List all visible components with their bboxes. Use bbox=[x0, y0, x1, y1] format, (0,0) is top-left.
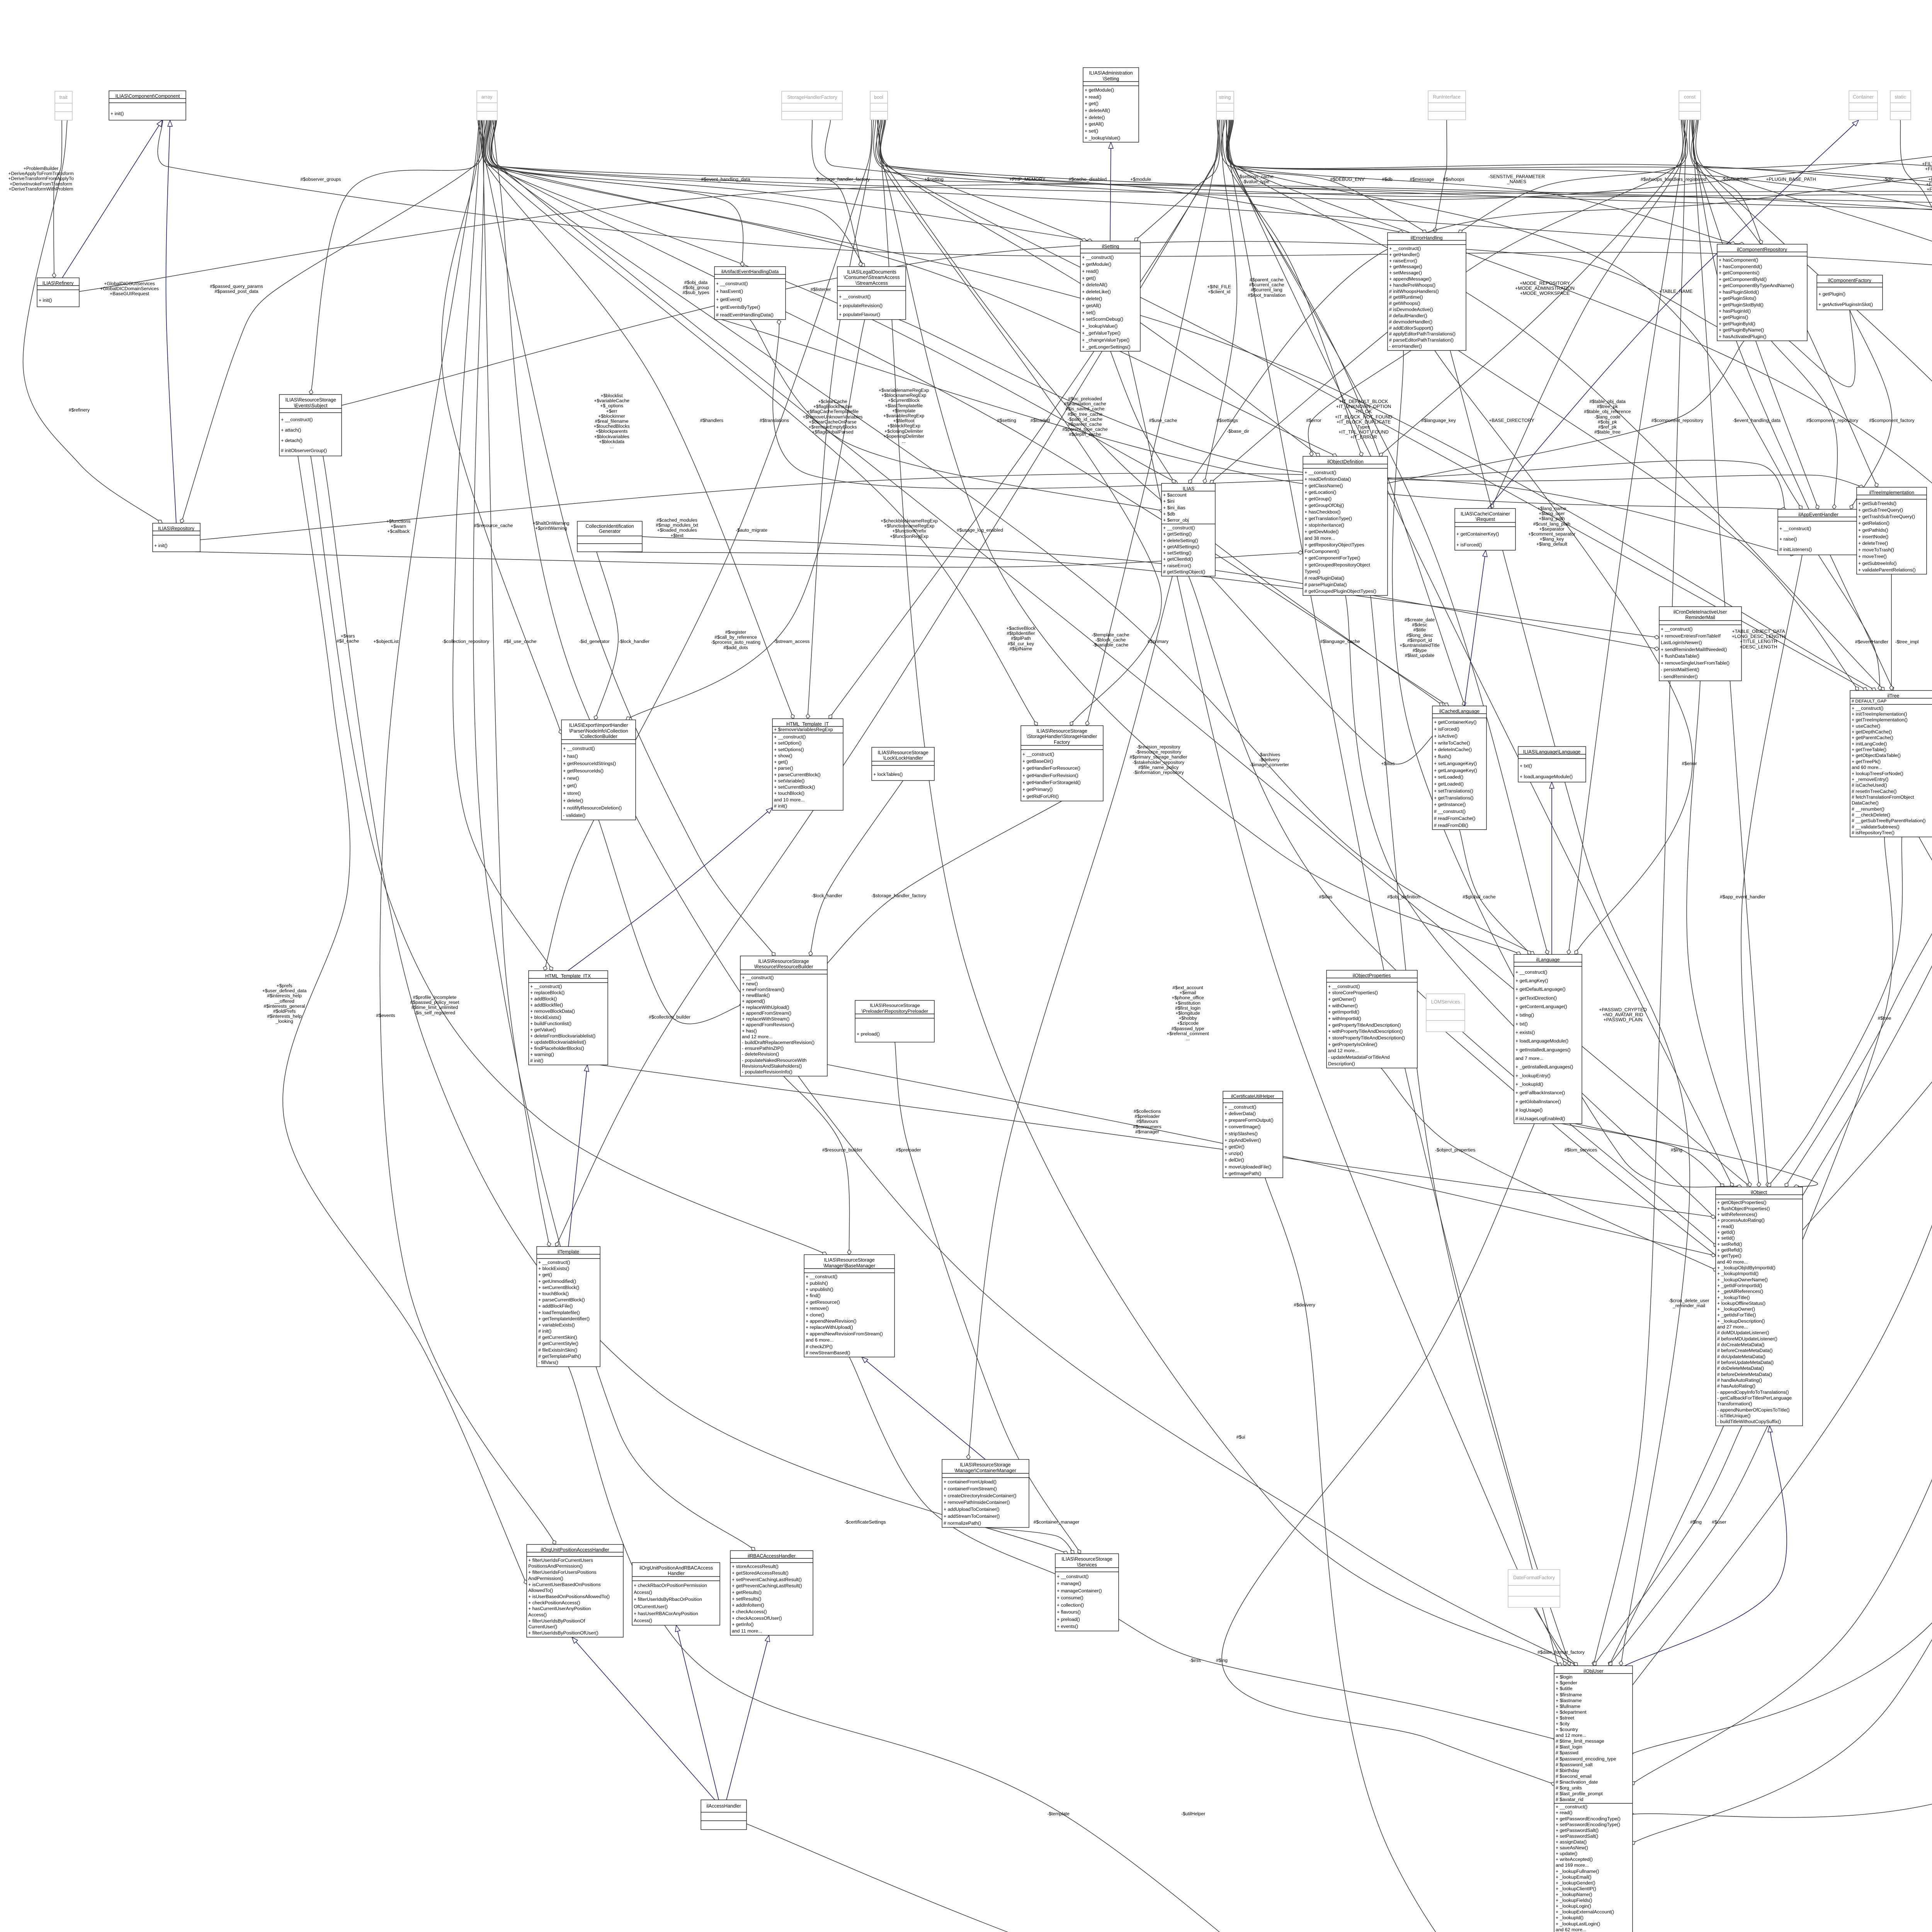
svg-text:ilTreeImplementation: ilTreeImplementation bbox=[1869, 490, 1914, 495]
svg-text:#$use_cache: #$use_cache bbox=[1149, 418, 1177, 423]
svg-text:ILIAS\ResourceStorage: ILIAS\ResourceStorage bbox=[960, 1462, 1010, 1468]
svg-text:# doUpdateMetaData(): # doUpdateMetaData() bbox=[1717, 1354, 1765, 1359]
svg-text:# $time_limit_message: # $time_limit_message bbox=[1556, 1738, 1604, 1744]
svg-text:StorageHandlerFactory: StorageHandlerFactory bbox=[787, 95, 837, 100]
svg-text:+ deleteTree(): + deleteTree() bbox=[1858, 541, 1888, 546]
svg-text:+ withImportId(): + withImportId() bbox=[1328, 1016, 1361, 1021]
svg-text:+ init(): + init() bbox=[111, 111, 124, 116]
svg-text:+ hasComponent(): + hasComponent() bbox=[1719, 257, 1758, 263]
svg-text:RunInterface: RunInterface bbox=[1433, 94, 1461, 100]
svg-text:+ storePropertyTitleAndDescrip: + storePropertyTitleAndDescription() bbox=[1328, 1035, 1405, 1041]
svg-text:+IT_DEFAULT_BLOCK: +IT_DEFAULT_BLOCK bbox=[1339, 399, 1388, 404]
svg-text:#$desc: #$desc bbox=[1412, 622, 1427, 628]
svg-text:+ getResourceIdStrings(): + getResourceIdStrings() bbox=[563, 761, 616, 766]
svg-text:+ getGroup(): + getGroup() bbox=[1304, 496, 1332, 502]
svg-text:#$translation_cache: #$translation_cache bbox=[1064, 401, 1106, 406]
svg-text:+$user_defined_data: +$user_defined_data bbox=[262, 988, 307, 993]
svg-text:#$obj_definition: #$obj_definition bbox=[1387, 894, 1420, 900]
svg-text:+$closingDelimiter: +$closingDelimiter bbox=[884, 429, 923, 434]
svg-text:+ setCurrentBlock(): + setCurrentBlock() bbox=[538, 1285, 579, 1290]
svg-text:+$blockinner: +$blockinner bbox=[598, 413, 625, 419]
svg-text:-$path_id_cache: -$path_id_cache bbox=[1068, 417, 1102, 422]
svg-text:+ addBlock(): + addBlock() bbox=[530, 996, 557, 1002]
svg-text:+$touchedBlocks: +$touchedBlocks bbox=[594, 423, 629, 429]
svg-text:and 7 more...: and 7 more... bbox=[1515, 1056, 1543, 1061]
svg-text:+ hasComponentId(): + hasComponentId() bbox=[1719, 264, 1762, 269]
svg-text:#$events: #$events bbox=[376, 1013, 395, 1018]
svg-text:\StorageHandler\StorageHandler: \StorageHandler\StorageHandler bbox=[1027, 734, 1097, 739]
svg-text:+ getTreePk(): + getTreePk() bbox=[1852, 759, 1881, 764]
svg-text:+MODE_REPOSITORY: +MODE_REPOSITORY bbox=[1520, 281, 1570, 286]
svg-text:+ zipAndDeliver(): + zipAndDeliver() bbox=[1225, 1138, 1261, 1143]
svg-text:#$db: #$db bbox=[1382, 177, 1392, 182]
svg-text:# $passwd: # $passwd bbox=[1556, 1750, 1578, 1755]
svg-text:+ convertImage(): + convertImage() bbox=[1225, 1124, 1260, 1129]
svg-text:+ filterUserIdsByPositionOf: + filterUserIdsByPositionOf bbox=[528, 1618, 585, 1624]
svg-text:+ readDefinitionData(): + readDefinitionData() bbox=[1304, 476, 1351, 482]
svg-text:+ isForced(): + isForced() bbox=[1456, 542, 1482, 548]
svg-text:# readFromDB(): # readFromDB() bbox=[1434, 823, 1468, 828]
svg-text:Types: Types bbox=[1357, 424, 1370, 430]
svg-text:+ getDefaultLanguage(): + getDefaultLanguage() bbox=[1515, 986, 1566, 992]
svg-text:+ getComponentByTypeAndName(): + getComponentByTypeAndName() bbox=[1719, 283, 1794, 288]
svg-text:#$root_translation: #$root_translation bbox=[1248, 293, 1286, 298]
svg-text:+FILTER_TEMPLATES: +FILTER_TEMPLATES bbox=[1926, 182, 1932, 187]
svg-text:+ flavours(): + flavours() bbox=[1057, 1609, 1081, 1615]
svg-text:Generator: Generator bbox=[599, 529, 621, 534]
svg-text:Access(): Access() bbox=[634, 1590, 652, 1595]
svg-text:DataCache(): DataCache() bbox=[1852, 800, 1879, 806]
svg-text:# initObserverGroup(): # initObserverGroup() bbox=[281, 448, 327, 453]
svg-text:+ appendMessage(): + appendMessage() bbox=[1389, 276, 1432, 282]
svg-text:# initWhoopsHandlers(): # initWhoopsHandlers() bbox=[1389, 289, 1439, 294]
svg-text:+ newBlank(): + newBlank() bbox=[742, 993, 770, 998]
svg-text:ilOrgUnitPositionAndRBACAccess: ilOrgUnitPositionAndRBACAccess bbox=[639, 1565, 713, 1571]
svg-text:+ writeAccepted(): + writeAccepted() bbox=[1556, 1857, 1593, 1862]
svg-text:+ newFromStream(): + newFromStream() bbox=[742, 987, 784, 992]
svg-text:ilCronDeleteInactiveUser: ilCronDeleteInactiveUser bbox=[1673, 609, 1727, 615]
svg-text:#$depth_cache: #$depth_cache bbox=[1069, 432, 1101, 437]
svg-text:#$error: #$error bbox=[1682, 761, 1697, 766]
svg-text:+ lockTables(): + lockTables() bbox=[873, 772, 903, 777]
svg-text:#$lom_services: #$lom_services bbox=[1565, 1147, 1597, 1153]
svg-text:# beforeUpdateMetaData(): # beforeUpdateMetaData() bbox=[1717, 1360, 1774, 1365]
svg-text:+ __construct(): + __construct() bbox=[1328, 984, 1360, 989]
svg-text:+ _getLongerSettings(): + _getLongerSettings() bbox=[1082, 344, 1130, 350]
svg-text:+ getType(): + getType() bbox=[1717, 1253, 1742, 1259]
svg-text:...: ... bbox=[1186, 1036, 1190, 1041]
svg-text:ilObject: ilObject bbox=[1751, 1190, 1767, 1195]
svg-text:#$time_limit_unlimited: #$time_limit_unlimited bbox=[412, 1005, 458, 1010]
svg-text:#$lng: #$lng bbox=[1216, 1658, 1228, 1663]
svg-text:+ setLoaded(): + setLoaded() bbox=[1434, 774, 1463, 780]
svg-text:HTML_Template_IT: HTML_Template_IT bbox=[786, 721, 829, 727]
svg-text:+ getRidForURI(): + getRidForURI() bbox=[1022, 794, 1059, 799]
svg-text:-$process_auto_reating: -$process_auto_reating bbox=[711, 639, 760, 645]
svg-text:- getCallbackForTitlesPerLangu: - getCallbackForTitlesPerLanguage bbox=[1717, 1395, 1792, 1401]
svg-text:+ read(): + read() bbox=[1082, 269, 1099, 274]
svg-text:+ writeToCache(): + writeToCache() bbox=[1434, 740, 1470, 746]
svg-text:+$loaded_modules: +$loaded_modules bbox=[657, 527, 697, 533]
svg-text:# __construct(): # __construct() bbox=[1434, 809, 1466, 814]
svg-text:#$manager: #$manager bbox=[1135, 1129, 1159, 1134]
svg-text:+ lookupTreesForNode(): + lookupTreesForNode() bbox=[1852, 771, 1903, 776]
svg-text:+ getPasswordEncodingType(): + getPasswordEncodingType() bbox=[1556, 1816, 1621, 1821]
svg-text:+$removeUnknownVariables: +$removeUnknownVariables bbox=[803, 414, 862, 420]
svg-text:trait: trait bbox=[60, 95, 68, 100]
svg-text:+ $ini_ilias: + $ini_ilias bbox=[1163, 505, 1185, 510]
svg-text:+$checkblocknameRegExp: +$checkblocknameRegExp bbox=[881, 518, 938, 524]
svg-text:+ _lookupLogin(): + _lookupLogin() bbox=[1556, 1903, 1591, 1909]
svg-text:#$settings: #$settings bbox=[1216, 418, 1238, 423]
svg-text:-$id_generator: -$id_generator bbox=[579, 639, 609, 644]
svg-text:#$consumers: #$consumers bbox=[1133, 1124, 1161, 1129]
svg-text:+DESC_LENGTH: +DESC_LENGTH bbox=[1740, 644, 1777, 650]
svg-text:+ _lookupDescription(): + _lookupDescription() bbox=[1717, 1318, 1765, 1324]
svg-text:PositionsAndPermission(): PositionsAndPermission() bbox=[528, 1563, 583, 1569]
svg-text:# __renumber(): # __renumber() bbox=[1852, 806, 1884, 812]
svg-text:+FILTER_INTERNAL: +FILTER_INTERNAL bbox=[1928, 177, 1932, 182]
svg-text:+ new(): + new() bbox=[742, 981, 758, 986]
svg-text:\Manager\ContainerManager: \Manager\ContainerManager bbox=[954, 1468, 1016, 1473]
svg-text:#$user: #$user bbox=[1712, 1519, 1726, 1525]
svg-text:+ getMessage(): + getMessage() bbox=[1389, 264, 1422, 269]
svg-text:#$component_repository: #$component_repository bbox=[1806, 418, 1859, 423]
svg-text:+ loadTemplatefile(): + loadTemplatefile() bbox=[538, 1310, 580, 1315]
svg-text:+ store(): + store() bbox=[563, 791, 581, 796]
svg-text:# $birthday: # $birthday bbox=[1556, 1768, 1580, 1773]
svg-text:# init(): # init() bbox=[774, 803, 787, 809]
svg-text:DateFormatFactory: DateFormatFactory bbox=[1513, 1575, 1555, 1580]
svg-text:+ deleteLike(): + deleteLike() bbox=[1082, 289, 1111, 294]
svg-text:+ hasUserRBACorAnyPosition: + hasUserRBACorAnyPosition bbox=[634, 1611, 698, 1616]
svg-text:+ getUnmodified(): + getUnmodified() bbox=[538, 1279, 576, 1284]
svg-text:+DeriveTransformWithProblem: +DeriveTransformWithProblem bbox=[9, 186, 73, 192]
svg-text:-$base_dir: -$base_dir bbox=[1227, 429, 1249, 434]
svg-text:- buildTitleWithoutCopySuffix(: - buildTitleWithoutCopySuffix() bbox=[1717, 1419, 1781, 1424]
svg-text:+$haltOnWarning: +$haltOnWarning bbox=[533, 520, 570, 526]
svg-text:Container: Container bbox=[1853, 94, 1874, 100]
svg-text:+ProblemBuilder: +ProblemBuilder bbox=[24, 166, 58, 171]
svg-text:#$tplName: #$tplName bbox=[1010, 646, 1032, 651]
svg-text:+ $utitle: + $utitle bbox=[1556, 1686, 1573, 1691]
svg-text:+ raiseError(): + raiseError() bbox=[1389, 258, 1417, 264]
svg-text:+ getSubTreeIds(): + getSubTreeIds() bbox=[1858, 501, 1896, 506]
svg-text:+ has(): + has() bbox=[563, 753, 578, 759]
svg-text:-$template: -$template bbox=[1047, 1811, 1070, 1816]
svg-text:+ getPasswordSalt(): + getPasswordSalt() bbox=[1556, 1828, 1599, 1833]
svg-text:+ isActive(): + isActive() bbox=[1434, 733, 1458, 739]
svg-text:+ _lookupId(): + _lookupId() bbox=[1515, 1082, 1543, 1087]
svg-text:+ __construct(): + __construct() bbox=[742, 975, 774, 980]
svg-text:+IT_UNKNOWN_OPTION: +IT_UNKNOWN_OPTION bbox=[1336, 404, 1391, 409]
svg-text:+ clone(): + clone() bbox=[806, 1312, 824, 1318]
svg-text:+ has(): + has() bbox=[742, 1028, 757, 1034]
svg-text:- buildDraftReplacementRevisio: - buildDraftReplacementRevision() bbox=[742, 1040, 815, 1045]
svg-text:+ _lookupId(): + _lookupId() bbox=[1556, 1915, 1583, 1920]
svg-text:+ getGroupOfObj(): + getGroupOfObj() bbox=[1304, 503, 1344, 508]
svg-text:+ getDepthCache(): + getDepthCache() bbox=[1852, 729, 1892, 735]
svg-text:ILIAS\ResourceStorage: ILIAS\ResourceStorage bbox=[878, 750, 928, 755]
svg-text:+ txt(): + txt() bbox=[1515, 1021, 1528, 1027]
svg-text:+ flush(): + flush() bbox=[1434, 754, 1451, 759]
svg-text:#$passwd_policy_reset: #$passwd_policy_reset bbox=[410, 1000, 459, 1005]
svg-text:+ read(): + read() bbox=[1085, 94, 1101, 100]
svg-text:- fillVars(): - fillVars() bbox=[538, 1360, 558, 1365]
svg-text:+ getParentCache(): + getParentCache() bbox=[1852, 735, 1893, 740]
svg-text:#$resource_cache: #$resource_cache bbox=[474, 523, 513, 528]
svg-text:# parsePluginData(): # parsePluginData() bbox=[1304, 582, 1347, 587]
svg-text:+ getModule(): + getModule() bbox=[1082, 262, 1111, 267]
svg-text:+ $department: + $department bbox=[1556, 1709, 1587, 1715]
svg-text:+ publish(): + publish() bbox=[806, 1281, 828, 1286]
svg-text:+ get(): + get() bbox=[1085, 101, 1099, 106]
svg-text:+ hasPluginSlotId(): + hasPluginSlotId() bbox=[1719, 289, 1759, 295]
svg-text:+ assignData(): + assignData() bbox=[1556, 1839, 1587, 1845]
svg-text:+ setVariable(): + setVariable() bbox=[774, 778, 804, 784]
svg-text:#$table_obj_reference: #$table_obj_reference bbox=[1584, 409, 1631, 414]
svg-text:-$certificateSettings: -$certificateSettings bbox=[844, 1519, 886, 1525]
svg-text:+ hasCheckbox(): + hasCheckbox() bbox=[1304, 509, 1340, 515]
svg-text:+$hobby: +$hobby bbox=[1179, 1015, 1197, 1021]
svg-text:#$tree: #$tree bbox=[1878, 1015, 1891, 1021]
svg-text:-$settings_cache: -$settings_cache bbox=[1238, 174, 1274, 179]
svg-text:+ getAll(): + getAll() bbox=[1085, 121, 1104, 127]
svg-text:-$lock_handler: -$lock_handler bbox=[811, 893, 842, 898]
svg-text:+ blockExists(): + blockExists() bbox=[538, 1266, 569, 1271]
svg-text:# fileExistsInSkin(): # fileExistsInSkin() bbox=[538, 1347, 577, 1353]
svg-text:#$interests_help: #$interests_help bbox=[267, 993, 302, 998]
svg-text:# init(): # init() bbox=[530, 1058, 543, 1063]
svg-text:#$ext_account: #$ext_account bbox=[1172, 985, 1203, 990]
svg-text:+ setOptions(): + setOptions() bbox=[774, 747, 804, 752]
svg-text:+ _getValueType(): + _getValueType() bbox=[1082, 330, 1121, 336]
svg-text:+ manage(): + manage() bbox=[1057, 1581, 1081, 1586]
svg-text:+ _lookupLastLogin(): + _lookupLastLogin() bbox=[1556, 1921, 1600, 1927]
svg-text:+ getPluginByName(): + getPluginByName() bbox=[1719, 327, 1764, 333]
svg-text:#$parent_type_cache: #$parent_type_cache bbox=[1062, 427, 1107, 432]
svg-text:#$passed_post_data: #$passed_post_data bbox=[214, 289, 258, 294]
svg-text:+$openingDelimiter: +$openingDelimiter bbox=[883, 434, 924, 439]
svg-text:+ read(): + read() bbox=[1556, 1810, 1572, 1815]
svg-text:# beforeCreateMetaData(): # beforeCreateMetaData() bbox=[1717, 1348, 1773, 1353]
svg-text:\Parser\NodeInfo\Collection: \Parser\NodeInfo\Collection bbox=[569, 728, 628, 734]
svg-text:ilRBACAccessHandler: ilRBACAccessHandler bbox=[748, 1553, 796, 1559]
svg-text:+ getResults(): + getResults() bbox=[732, 1590, 762, 1595]
svg-text:#$add_dots: #$add_dots bbox=[723, 645, 748, 650]
svg-text:+ getTrashSubTreeQuery(): + getTrashSubTreeQuery() bbox=[1858, 514, 1915, 519]
svg-text:+ notififyResourceDeletion(): + notififyResourceDeletion() bbox=[563, 805, 622, 811]
svg-text:#$in_tree_cache: #$in_tree_cache bbox=[1068, 412, 1102, 417]
svg-text:#$collection_builder: #$collection_builder bbox=[649, 1014, 690, 1020]
svg-text:#$passwd_type: #$passwd_type bbox=[1172, 1026, 1204, 1031]
svg-text:-SENSTIVE_PARAMETER: -SENSTIVE_PARAMETER bbox=[1488, 174, 1545, 179]
svg-text:# __validateSubtrees(): # __validateSubtrees() bbox=[1852, 824, 1900, 830]
svg-text:+ txtlng(): + txtlng() bbox=[1515, 1012, 1534, 1018]
svg-text:+ append(): + append() bbox=[742, 998, 765, 1004]
svg-text:+ saveAsNew(): + saveAsNew() bbox=[1556, 1845, 1588, 1850]
svg-text:+$lastTemplatefile: +$lastTemplatefile bbox=[885, 403, 923, 408]
svg-text:- persistMailSent(): - persistMailSent() bbox=[1661, 667, 1699, 672]
svg-text:# initListeners(): # initListeners() bbox=[1779, 547, 1812, 552]
svg-text:+ getAllSettings(): + getAllSettings() bbox=[1163, 544, 1199, 549]
svg-text:Access(): Access() bbox=[528, 1612, 547, 1617]
svg-text:+$blocknameRegExp: +$blocknameRegExp bbox=[881, 393, 926, 398]
svg-text:ilTemplate: ilTemplate bbox=[558, 1249, 579, 1255]
svg-text:+ get(): + get() bbox=[538, 1272, 552, 1277]
svg-text:#$current_cache: #$current_cache bbox=[1249, 282, 1284, 287]
svg-text:static: static bbox=[1895, 94, 1906, 100]
svg-text:+ getSetting(): + getSetting() bbox=[1163, 531, 1192, 537]
svg-text:+ loadLanguageModule(): + loadLanguageModule() bbox=[1520, 774, 1573, 779]
svg-text:+$flagBlocktrouble: +$flagBlocktrouble bbox=[813, 404, 852, 409]
svg-text:+$institution: +$institution bbox=[1175, 1000, 1200, 1006]
svg-text:_looking: _looking bbox=[275, 1019, 293, 1024]
svg-text:#$title: #$title bbox=[1413, 627, 1426, 633]
svg-text:+ $street: + $street bbox=[1556, 1715, 1575, 1721]
svg-text:\Services: \Services bbox=[1077, 1562, 1097, 1568]
svg-text:# devmodeHandler(): # devmodeHandler() bbox=[1389, 319, 1432, 325]
svg-text:+ getLocation(): + getLocation() bbox=[1304, 490, 1336, 495]
svg-text:#$il_use_cache: #$il_use_cache bbox=[504, 639, 537, 644]
svg-text:+$clearCache: +$clearCache bbox=[818, 399, 847, 404]
svg-text:#$component_factory: #$component_factory bbox=[1869, 418, 1915, 423]
svg-text:# $avatar_rid: # $avatar_rid bbox=[1556, 1797, 1583, 1802]
svg-text:string: string bbox=[1219, 95, 1231, 100]
svg-text:+ setLanguageKey(): + setLanguageKey() bbox=[1434, 761, 1477, 766]
svg-text:#$last_update: #$last_update bbox=[1405, 653, 1435, 658]
svg-text:+ getLanguageKey(): + getLanguageKey() bbox=[1434, 768, 1477, 773]
svg-text:+ setSetting(): + setSetting() bbox=[1163, 550, 1191, 556]
svg-text:# doDeleteMetaData(): # doDeleteMetaData() bbox=[1717, 1366, 1764, 1371]
svg-text:#$import_id: #$import_id bbox=[1407, 638, 1432, 643]
svg-text:+ _lookupExternalAccount(): + _lookupExternalAccount() bbox=[1556, 1909, 1614, 1915]
svg-text:+ filterUserIdsByRbacOrPositio: + filterUserIdsByRbacOrPosition bbox=[634, 1597, 702, 1602]
svg-text:#$listener: #$listener bbox=[811, 287, 831, 292]
svg-text:+ getSubtreeInfo(): + getSubtreeInfo() bbox=[1858, 561, 1896, 566]
svg-text:+ _lookupImportId(): + _lookupImportId() bbox=[1717, 1271, 1759, 1276]
svg-text:+ __construct(): + __construct() bbox=[538, 1260, 570, 1265]
svg-text:+$functionRegExp: +$functionRegExp bbox=[890, 534, 929, 539]
svg-text:+BaseGUIRequest: +BaseGUIRequest bbox=[110, 291, 150, 296]
svg-text:+ getComponents(): + getComponents() bbox=[1719, 270, 1760, 276]
svg-text:+ getPlugin(): + getPlugin() bbox=[1818, 291, 1845, 297]
svg-text:- validate(): - validate() bbox=[563, 813, 585, 818]
svg-text:# $password_salt: # $password_salt bbox=[1556, 1762, 1593, 1767]
svg-text:\Consumer\StreamAccess: \Consumer\StreamAccess bbox=[844, 275, 900, 280]
svg-text:#$oc_preloaded: #$oc_preloaded bbox=[1068, 396, 1102, 401]
svg-text:#$language_key: #$language_key bbox=[1421, 418, 1456, 423]
svg-text:-$is_self_registered: -$is_self_registered bbox=[414, 1010, 455, 1015]
svg-text:+ txt(): + txt() bbox=[1520, 763, 1532, 769]
svg-text:CollectionIdentification: CollectionIdentification bbox=[585, 524, 634, 529]
svg-text:+ _lookupClientIP(): + _lookupClientIP() bbox=[1556, 1886, 1596, 1891]
svg-text:ilSetting: ilSetting bbox=[1102, 244, 1119, 249]
svg-text:# normalizePath(): # normalizePath() bbox=[944, 1520, 981, 1526]
svg-text:+ __construct(): + __construct() bbox=[1022, 752, 1054, 757]
svg-text:+ getHandlerForStorageId(): + getHandlerForStorageId() bbox=[1022, 780, 1081, 785]
svg-text:+ getLangKey(): + getLangKey() bbox=[1515, 978, 1548, 983]
svg-text:+$text: +$text bbox=[670, 533, 684, 538]
svg-text:+ __construct(): + __construct() bbox=[1779, 526, 1811, 531]
svg-text:AllowedTo(): AllowedTo() bbox=[528, 1588, 553, 1593]
svg-text:+ getGroupedRepositoryObject: + getGroupedRepositoryObject bbox=[1304, 562, 1370, 568]
svg-text:+ $fullname: + $fullname bbox=[1556, 1704, 1580, 1709]
svg-text:#$cache_disabled: #$cache_disabled bbox=[1069, 177, 1107, 182]
svg-text:ILIAS\Cache\Container: ILIAS\Cache\Container bbox=[1461, 511, 1510, 517]
svg-text:HTML_Template_ITX: HTML_Template_ITX bbox=[545, 973, 591, 979]
svg-text:+ replaceBlock(): + replaceBlock() bbox=[530, 990, 565, 995]
svg-text:+ $account: + $account bbox=[1163, 492, 1187, 498]
svg-text:+$functionnameRegExp: +$functionnameRegExp bbox=[884, 523, 935, 529]
svg-text:+ getGlobalInstance(): + getGlobalInstance() bbox=[1515, 1099, 1561, 1104]
svg-text:+ $country: + $country bbox=[1556, 1727, 1578, 1732]
svg-text:+DeriveTransformFromApplyTo: +DeriveTransformFromApplyTo bbox=[8, 176, 73, 181]
svg-text:+ removeBlockData(): + removeBlockData() bbox=[530, 1009, 575, 1014]
svg-text:+ setPreventCachingLastResult(: + setPreventCachingLastResult() bbox=[732, 1577, 802, 1582]
svg-text:ILIAS\Component\Component: ILIAS\Component\Component bbox=[116, 94, 180, 99]
svg-text:+ remove(): + remove() bbox=[806, 1306, 829, 1311]
svg-text:# hasAutoRating(): # hasAutoRating() bbox=[1717, 1383, 1755, 1389]
svg-text:+ populateRevision(): + populateRevision() bbox=[839, 303, 883, 308]
svg-text:+ checkRbacOrPositionPermissio: + checkRbacOrPositionPermission bbox=[634, 1583, 707, 1588]
svg-text:Transformation(): Transformation() bbox=[1717, 1401, 1752, 1406]
svg-text:- updateMetadataForTitleAnd: - updateMetadataForTitleAnd bbox=[1328, 1054, 1390, 1060]
svg-text:# resetInTreeCache(): # resetInTreeCache() bbox=[1852, 789, 1896, 794]
svg-text:+$variableCache: +$variableCache bbox=[594, 398, 629, 403]
svg-text:+ exists(): + exists() bbox=[1515, 1030, 1535, 1035]
svg-text:+ preload(): + preload() bbox=[857, 1031, 880, 1037]
svg-text:#$handlers: #$handlers bbox=[700, 418, 723, 423]
svg-text:+ getSubTreeQuery(): + getSubTreeQuery() bbox=[1858, 507, 1903, 513]
svg-text:+ appendFromRevision(): + appendFromRevision() bbox=[742, 1022, 794, 1027]
svg-text:and 11 more...: and 11 more... bbox=[732, 1628, 762, 1634]
svg-text:+GlobalDICDomainServices: +GlobalDICDomainServices bbox=[100, 286, 159, 291]
svg-text:+ __construct(): + __construct() bbox=[1225, 1104, 1256, 1110]
svg-text:-$delivery: -$delivery bbox=[1259, 757, 1280, 762]
svg-text:#$flavours: #$flavours bbox=[1136, 1119, 1158, 1124]
svg-text:#$table_tree: #$table_tree bbox=[1594, 429, 1621, 435]
svg-text:-$revision_repository: -$revision_repository bbox=[1136, 744, 1180, 750]
svg-text:+$clearCacheOnParse: +$clearCacheOnParse bbox=[809, 419, 857, 425]
svg-text:ILIAS\ResourceStorage: ILIAS\ResourceStorage bbox=[758, 959, 809, 964]
svg-text:+ getTemplateIdentifier(): + getTemplateIdentifier() bbox=[538, 1316, 590, 1321]
svg-text:+ deleteAll(): + deleteAll() bbox=[1085, 108, 1110, 113]
svg-text:+ getAll(): + getAll() bbox=[1082, 303, 1101, 308]
svg-text:+ setPasswordEncodingType(): + setPasswordEncodingType() bbox=[1556, 1822, 1620, 1827]
svg-text:+ _lookupFullname(): + _lookupFullname() bbox=[1556, 1869, 1599, 1874]
svg-text:-$dic: -$dic bbox=[1883, 177, 1893, 182]
svg-text:+ storeAccessResult(): + storeAccessResult() bbox=[732, 1564, 779, 1569]
svg-text:RevisionsAndStakeholders(): RevisionsAndStakeholders() bbox=[742, 1063, 802, 1069]
svg-text:-$value_type: -$value_type bbox=[1242, 179, 1269, 184]
svg-text:#$call_by_reference: #$call_by_reference bbox=[714, 634, 757, 640]
svg-text:# getCurrentSkin(): # getCurrentSkin() bbox=[538, 1335, 577, 1340]
svg-text:#$map_modules_txt: #$map_modules_txt bbox=[656, 522, 698, 528]
svg-text:+$variablenameRegExp: +$variablenameRegExp bbox=[879, 388, 929, 393]
svg-text:_NAMES: _NAMES bbox=[1507, 179, 1526, 184]
svg-text:+ collection(): + collection() bbox=[1057, 1602, 1084, 1608]
svg-text:+ _lookupObjIdByImportId(): + _lookupObjIdByImportId() bbox=[1717, 1265, 1776, 1270]
svg-text:+ addInfoItem(): + addInfoItem() bbox=[732, 1602, 764, 1608]
svg-text:- populateNakedResourceWith: - populateNakedResourceWith bbox=[742, 1058, 807, 1063]
svg-text:ilCertificateUtilHelper: ilCertificateUtilHelper bbox=[1231, 1094, 1274, 1099]
svg-text:ilOrgUnitPositionAccessHandler: ilOrgUnitPositionAccessHandler bbox=[541, 1547, 609, 1553]
svg-text:+ getHandlerForRevision(): + getHandlerForRevision() bbox=[1022, 773, 1078, 778]
svg-text:ilArtifactEventHandlingData: ilArtifactEventHandlingData bbox=[721, 269, 779, 274]
svg-text:+ _lookupOwner(): + _lookupOwner() bbox=[1717, 1306, 1755, 1312]
svg-text:+ getId(): + getId() bbox=[1717, 1230, 1735, 1235]
